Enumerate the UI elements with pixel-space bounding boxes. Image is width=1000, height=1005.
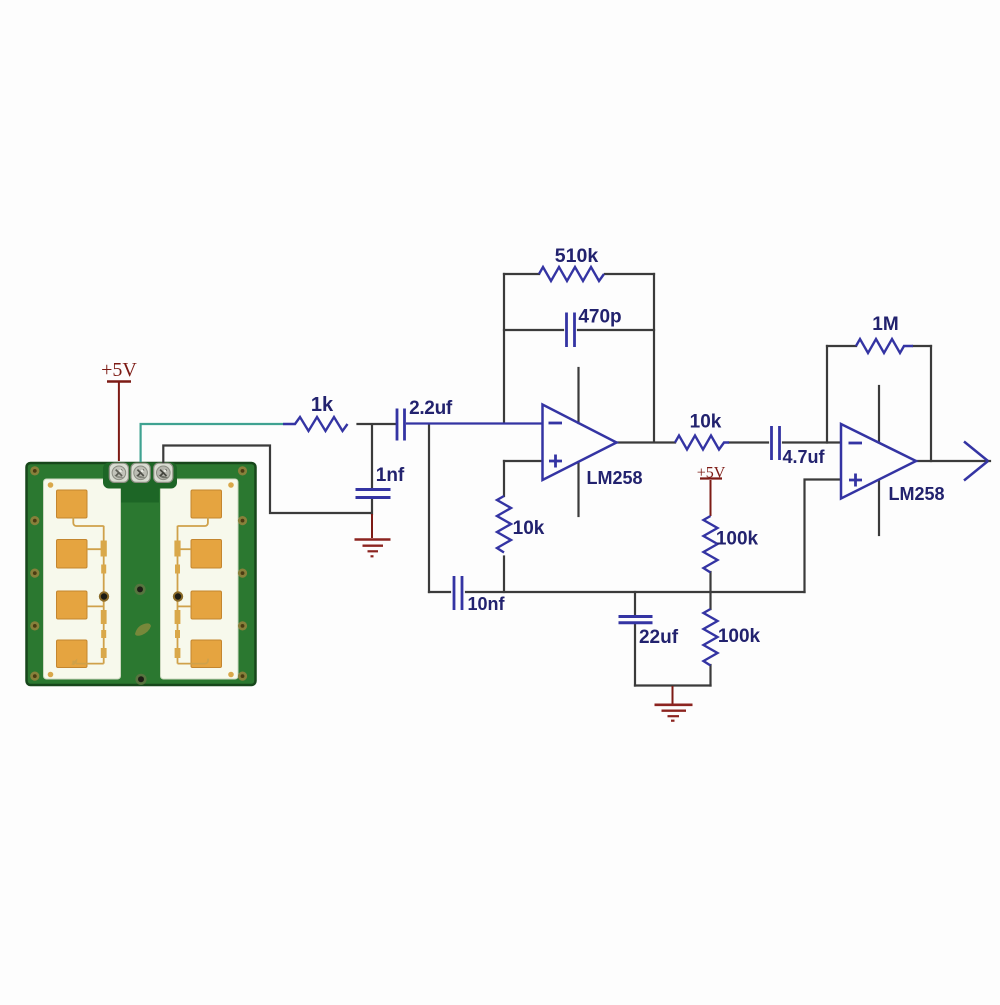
svg-text:4.7uf: 4.7uf — [782, 447, 825, 467]
svg-text:10nf: 10nf — [467, 594, 505, 614]
svg-text:+5V: +5V — [101, 359, 137, 381]
svg-text:+5V: +5V — [697, 465, 726, 482]
svg-text:1nf: 1nf — [376, 465, 405, 486]
svg-text:100k: 100k — [718, 626, 761, 647]
svg-text:10k: 10k — [513, 518, 545, 539]
svg-text:100k: 100k — [716, 529, 759, 550]
svg-text:LM258: LM258 — [586, 468, 642, 488]
svg-text:470p: 470p — [578, 307, 621, 328]
svg-text:2.2uf: 2.2uf — [409, 398, 453, 419]
svg-text:22uf: 22uf — [639, 627, 679, 648]
svg-text:1M: 1M — [872, 314, 898, 335]
svg-text:510k: 510k — [555, 245, 599, 267]
svg-text:1k: 1k — [311, 394, 334, 416]
svg-text:10k: 10k — [690, 412, 722, 433]
svg-text:LM258: LM258 — [888, 484, 944, 504]
